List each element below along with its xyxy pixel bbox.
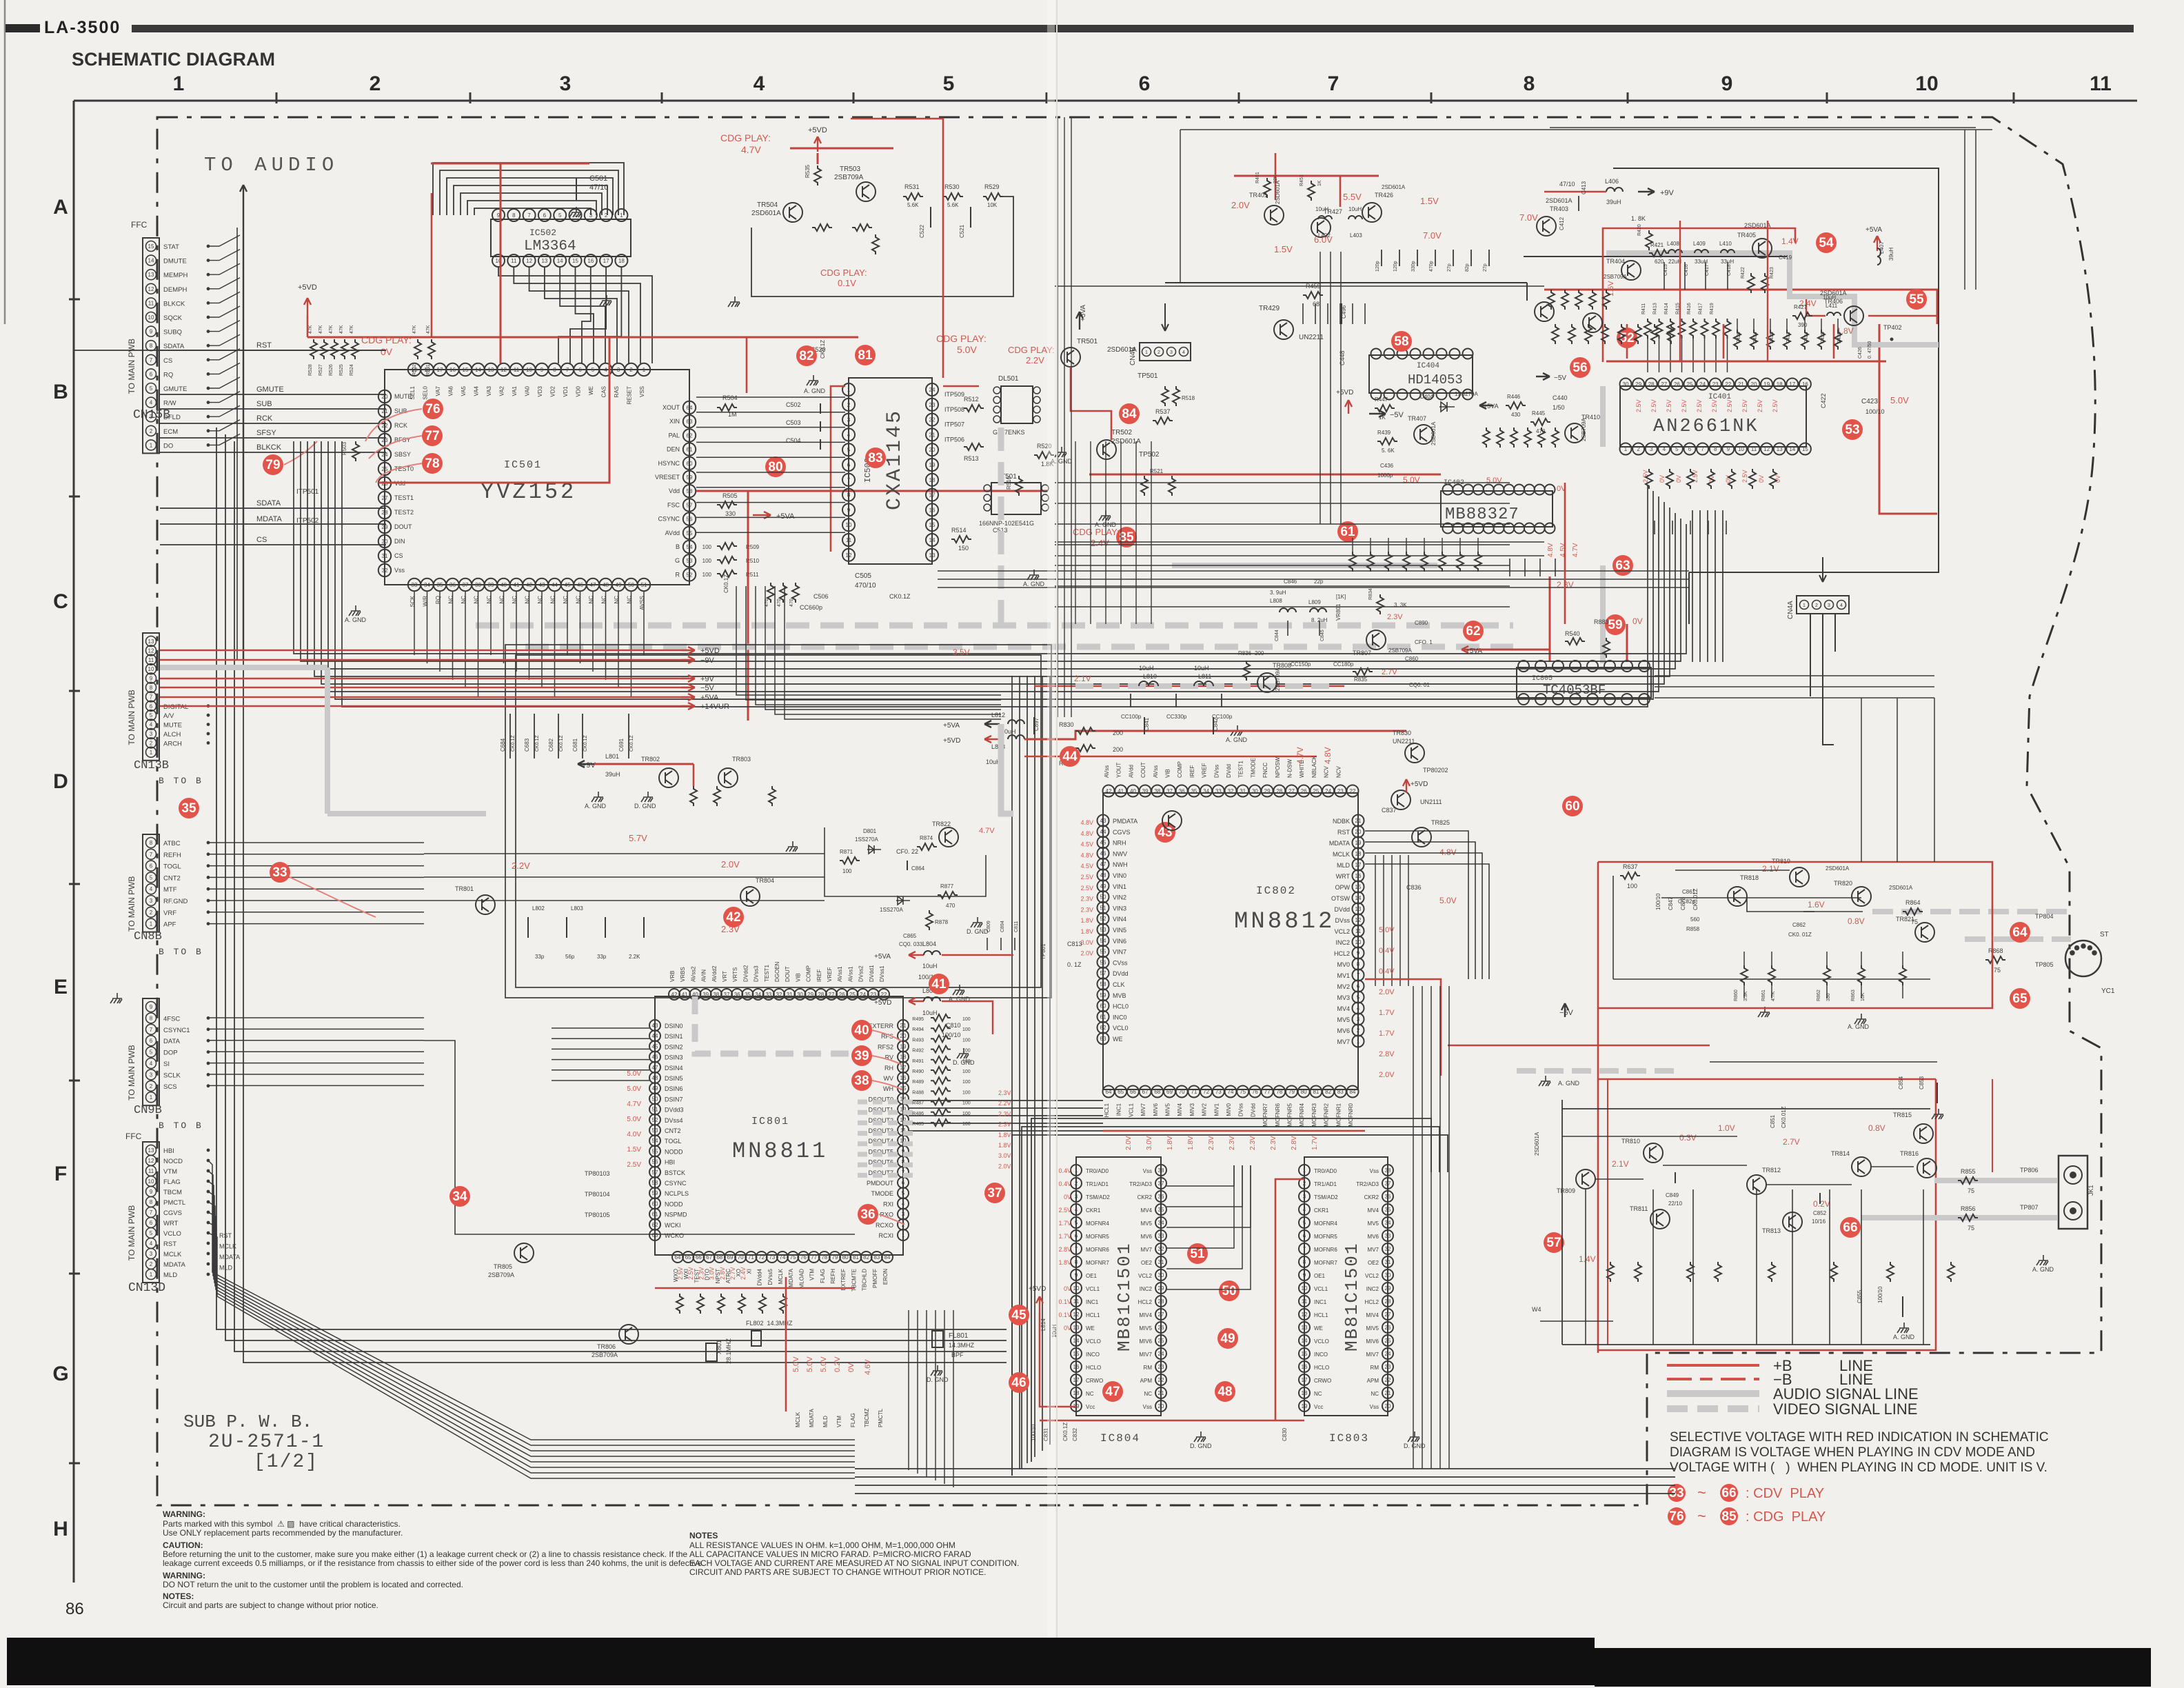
- svg-text:CFO. 1: CFO. 1: [1415, 639, 1433, 645]
- second -5V arrow: [1536, 373, 1550, 380]
- svg-text:WE: WE: [1086, 1325, 1095, 1332]
- svg-text:18: 18: [900, 1054, 907, 1061]
- svg-text:6: 6: [1303, 1233, 1306, 1239]
- svg-text:R529: R529: [984, 183, 1000, 190]
- svg-text:19: 19: [900, 1043, 907, 1049]
- callout 35: [179, 798, 199, 818]
- svg-text:HCL2: HCL2: [1138, 1299, 1153, 1305]
- svg-text:61: 61: [687, 447, 693, 453]
- svg-text:DSIN5: DSIN5: [665, 1075, 683, 1082]
- svg-text:65: 65: [1118, 1089, 1124, 1095]
- transistor Q-TR805 2SB709A: [514, 1243, 534, 1263]
- svg-text:3: 3: [1357, 1016, 1360, 1023]
- svg-text:76: 76: [1669, 1509, 1684, 1524]
- svg-text:TR2/AD3: TR2/AD3: [1356, 1181, 1379, 1187]
- svg-text:0V: 0V: [847, 1363, 856, 1372]
- svg-text:32: 32: [1228, 788, 1234, 794]
- svg-text:MOFNR6: MOFNR6: [1314, 1247, 1337, 1253]
- callout 49: [1217, 1328, 1238, 1349]
- svg-text:B: B: [676, 543, 680, 550]
- svg-text:C502: C502: [786, 401, 801, 408]
- svg-text:+5VD: +5VD: [1336, 389, 1353, 396]
- amp area supply rail top: [1562, 1108, 1930, 1109]
- svg-text:+14VUR: +14VUR: [700, 703, 729, 711]
- transistor Q-TR429 UN2211: [1274, 320, 1293, 339]
- svg-text:15: 15: [148, 243, 154, 250]
- wire box around central region outer: [505, 645, 1051, 998]
- svg-text:1.8V: 1.8V: [1058, 1259, 1071, 1266]
- +5VD arrow left of IC804: [1036, 1296, 1043, 1313]
- filter FL801 14.3MHZ BPF: [932, 1331, 943, 1347]
- svg-text:DVdd: DVdd: [1113, 970, 1129, 977]
- svg-text:3.5V: 3.5V: [953, 647, 970, 657]
- svg-text:58: 58: [687, 488, 693, 494]
- svg-text:330p: 330p: [1411, 261, 1416, 272]
- svg-text:R428: R428: [1837, 332, 1842, 343]
- transistor Q-TR804: [740, 887, 760, 906]
- svg-text:DVdd4: DVdd4: [757, 1268, 763, 1285]
- svg-text:10uH: 10uH: [1194, 665, 1209, 672]
- svg-text:A: A: [53, 196, 68, 219]
- svg-text:2SB709A: 2SB709A: [1581, 418, 1587, 441]
- svg-text:5.5V: 5.5V: [1343, 192, 1362, 202]
- caps C809 C894 C811 row: [987, 938, 988, 950]
- svg-text:29: 29: [382, 524, 388, 530]
- callout 43: [1155, 822, 1175, 843]
- svg-text:30: 30: [1623, 381, 1629, 388]
- svg-text:10: 10: [148, 666, 154, 672]
- svg-text:Circuit and parts are subject: Circuit and parts are subject to change …: [163, 1600, 378, 1610]
- callout 54: [1816, 232, 1837, 253]
- svg-text:CK0.1Z: CK0.1Z: [535, 735, 540, 752]
- svg-text:7: 7: [1303, 1246, 1306, 1252]
- svg-text:62: 62: [1466, 624, 1480, 639]
- svg-text:CDG PLAY:: CDG PLAY:: [820, 268, 867, 278]
- callout 51: [1187, 1243, 1208, 1264]
- svg-text:8: 8: [1303, 1259, 1306, 1265]
- xout oscillator parts R504: [717, 404, 737, 411]
- svg-text:CDG PLAY:: CDG PLAY:: [361, 334, 412, 345]
- svg-text:81: 81: [858, 348, 873, 363]
- svg-text:C418: C418: [1727, 264, 1732, 276]
- svg-text:R495: R495: [912, 1017, 924, 1022]
- svg-text:DVss3: DVss3: [754, 965, 760, 982]
- transistor Q-TR810 2SB709A: [1644, 1143, 1663, 1163]
- svg-text:37: 37: [1166, 788, 1173, 794]
- svg-text:32: 32: [1158, 1246, 1164, 1252]
- svg-text:R526: R526: [329, 364, 334, 376]
- svg-text:C425: C425: [1821, 332, 1826, 343]
- svg-text:+9V: +9V: [582, 761, 596, 770]
- svg-text:24: 24: [929, 387, 936, 393]
- svg-text:37: 37: [987, 1186, 1002, 1200]
- wire RST run: [74, 350, 386, 351]
- callout 61: [1337, 521, 1358, 542]
- svg-text:2.0V: 2.0V: [1379, 1071, 1395, 1079]
- svg-text:40: 40: [1130, 788, 1136, 794]
- svg-text:Vss: Vss: [394, 567, 405, 574]
- svg-text:79: 79: [832, 1254, 838, 1260]
- svg-text:R413: R413: [1653, 303, 1658, 314]
- svg-text:6: 6: [543, 212, 547, 219]
- svg-text:27: 27: [382, 495, 388, 501]
- svg-text:HCLO: HCLO: [1314, 1365, 1329, 1371]
- svg-text:6: 6: [578, 367, 582, 373]
- svg-text:13: 13: [148, 639, 154, 645]
- svg-text:14: 14: [1355, 895, 1362, 901]
- svg-text:TR811: TR811: [1630, 1205, 1648, 1212]
- svg-text:RESET: RESET: [627, 386, 633, 405]
- svg-text:RH: RH: [884, 1065, 893, 1072]
- grey audio path through filter: [1606, 253, 1939, 345]
- svg-text:68: 68: [1154, 1089, 1160, 1095]
- callout 45: [1009, 1305, 1029, 1325]
- svg-text:1K: 1K: [1379, 414, 1386, 421]
- svg-text:14: 14: [929, 537, 936, 543]
- IC U-IC801 MN8811: [655, 996, 903, 1255]
- svg-text:INC2: INC2: [1140, 1286, 1153, 1292]
- svg-text:AVdd: AVdd: [1128, 765, 1134, 778]
- callout 47: [1102, 1381, 1123, 1402]
- IC U-IC502 LM3364: [491, 219, 631, 257]
- svg-text:R863: R863: [1851, 989, 1856, 1001]
- svg-text:22: 22: [1725, 381, 1731, 388]
- svg-text:NOTES: NOTES: [689, 1531, 718, 1540]
- callout 41: [929, 974, 949, 994]
- svg-text:NOTES:: NOTES:: [163, 1591, 194, 1601]
- svg-text:TR825: TR825: [1431, 819, 1450, 826]
- svg-text:INC1: INC1: [1086, 1299, 1099, 1305]
- svg-text:1.7V: 1.7V: [1379, 1029, 1395, 1038]
- svg-text:63: 63: [652, 1232, 658, 1238]
- svg-text:C837: C837: [1382, 807, 1397, 814]
- svg-text:330: 330: [1826, 993, 1831, 1001]
- svg-text:SEL0: SEL0: [423, 385, 429, 399]
- svg-text:HCL0: HCL0: [1113, 1003, 1129, 1010]
- svg-text:4.8V: 4.8V: [1323, 747, 1333, 764]
- svg-text:71: 71: [1191, 1089, 1197, 1095]
- callout 77: [422, 425, 443, 446]
- svg-text:DVss: DVss: [1238, 1103, 1244, 1116]
- svg-text:MN8811: MN8811: [732, 1138, 828, 1164]
- callout 33: [270, 862, 290, 883]
- callout 42: [723, 907, 744, 927]
- long verticals through middle: [1057, 117, 1058, 717]
- svg-text:WE: WE: [1314, 1325, 1323, 1332]
- svg-text:2SD601A: 2SD601A: [1546, 197, 1573, 204]
- svg-text:2.5V: 2.5V: [1711, 399, 1718, 412]
- +9V arrow left net: [578, 761, 594, 767]
- svg-text:5.0V: 5.0V: [1379, 926, 1395, 934]
- svg-text:100/10: 100/10: [1655, 893, 1661, 910]
- svg-text:CIRCUIT AND PARTS ARE SUBJECT: CIRCUIT AND PARTS ARE SUBJECT TO CHANGE …: [689, 1567, 987, 1577]
- svg-text:N-DSW: N-DSW: [1287, 758, 1293, 778]
- svg-text:INC1: INC1: [1116, 1103, 1122, 1116]
- IC U-IC804 MB81C1501: [1076, 1157, 1161, 1416]
- red wire +9V rail into TR802: [594, 763, 694, 765]
- svg-text:VCL1: VCL1: [1086, 1286, 1100, 1292]
- svg-text:0.1V: 0.1V: [838, 278, 856, 288]
- svg-text:44: 44: [652, 1033, 658, 1039]
- svg-text:38: 38: [1158, 1167, 1164, 1174]
- svg-text:40: 40: [501, 582, 507, 588]
- svg-text:VIN4: VIN4: [1113, 916, 1126, 923]
- svg-text:ITP507: ITP507: [944, 421, 964, 428]
- svg-text:VRF: VRF: [163, 910, 176, 917]
- block DL501: [1001, 386, 1033, 423]
- svg-text:22: 22: [1350, 788, 1356, 794]
- svg-text:L814: L814: [1040, 1318, 1046, 1331]
- svg-text:TBCMZ: TBCMZ: [864, 1408, 870, 1427]
- svg-text:C897: C897: [1033, 717, 1040, 731]
- svg-text:54: 54: [1100, 938, 1106, 944]
- svg-text:VCL0: VCL0: [1113, 1025, 1129, 1032]
- svg-text:24: 24: [1385, 1351, 1391, 1357]
- svg-text:4.8V: 4.8V: [1080, 819, 1093, 826]
- svg-text:ECM: ECM: [163, 428, 178, 436]
- svg-text:38: 38: [475, 582, 481, 588]
- svg-text:TP804: TP804: [2035, 913, 2054, 920]
- svg-text:TR812: TR812: [1762, 1167, 1781, 1174]
- svg-text:64: 64: [1106, 1089, 1112, 1095]
- svg-text:86: 86: [65, 1600, 84, 1618]
- connector CN15B: [143, 238, 159, 453]
- svg-text:41: 41: [682, 992, 688, 998]
- svg-text:2.3V: 2.3V: [1080, 896, 1093, 903]
- svg-text:MV7: MV7: [1141, 1247, 1153, 1253]
- red bus above AN2661NK pins: [1606, 361, 1886, 363]
- svg-text:VIN6: VIN6: [1113, 938, 1126, 945]
- svg-text:XI: XI: [746, 1269, 752, 1274]
- svg-text:47: 47: [1105, 1385, 1120, 1399]
- svg-text:HCL2: HCL2: [1334, 950, 1350, 957]
- svg-text:3: 3: [150, 1251, 153, 1257]
- svg-text:9: 9: [1357, 950, 1360, 956]
- svg-text:5: 5: [1303, 1220, 1306, 1226]
- callout 38: [851, 1070, 872, 1091]
- CN9B stub wires: [208, 1017, 424, 1018]
- svg-text:R513: R513: [964, 455, 979, 462]
- wire loop nest around IC804/IC803: [1012, 1135, 1448, 1476]
- svg-text:2.5V: 2.5V: [1635, 399, 1642, 412]
- svg-text:1.8V: 1.8V: [998, 1142, 1011, 1149]
- svg-text:SQCK: SQCK: [163, 314, 183, 322]
- resistor R835 3.3K: [1353, 668, 1373, 675]
- svg-text:TR404: TR404: [1606, 258, 1625, 265]
- svg-text:MLD: MLD: [1337, 862, 1351, 869]
- svg-text:DIAGRAM IS VOLTAGE WHEN PLAYIN: DIAGRAM IS VOLTAGE WHEN PLAYING IN CDV M…: [1670, 1445, 2035, 1460]
- svg-text:10: 10: [1073, 1285, 1080, 1292]
- svg-text:OTSW: OTSW: [1331, 895, 1351, 902]
- filter caps C415-C418: [1664, 262, 1665, 290]
- svg-text:20: 20: [929, 447, 936, 453]
- transistor Q-TR830 UN2211: [1405, 743, 1424, 763]
- wire bundle right of IC802 to IC803: [1413, 986, 1414, 1469]
- ground A.GND below JK1: [2036, 1255, 2048, 1265]
- svg-text:50: 50: [652, 1096, 658, 1102]
- svg-text:CKR1: CKR1: [1086, 1207, 1101, 1214]
- svg-text:39: 39: [1142, 788, 1149, 794]
- svg-text:1.8V: 1.8V: [1187, 1136, 1195, 1150]
- svg-text:2.5V: 2.5V: [677, 1267, 684, 1280]
- grey bus from CN13B: [160, 665, 327, 670]
- svg-text:CK0.1Z: CK0.1Z: [820, 340, 826, 359]
- svg-text:R421: R421: [1650, 242, 1664, 248]
- svg-text:GMUTE: GMUTE: [256, 385, 284, 394]
- svg-text:2.2V: 2.2V: [998, 1100, 1011, 1107]
- +5VD arrow right of IC802: [1403, 779, 1410, 793]
- svg-text:R427: R427: [1794, 304, 1808, 310]
- svg-text:2.2V: 2.2V: [512, 861, 530, 871]
- svg-text:MV0: MV0: [1337, 961, 1350, 968]
- svg-text:R537: R537: [1155, 408, 1171, 415]
- svg-text:−5V: −5V: [1554, 374, 1566, 382]
- svg-text:TR502: TR502: [1111, 429, 1132, 436]
- horizontal bundle IC801-right to IC802-bottom: [909, 1100, 1103, 1101]
- svg-text:MOFNR1: MOFNR1: [1335, 1103, 1342, 1126]
- svg-text:54: 54: [1819, 236, 1834, 250]
- svg-text:ERON: ERON: [882, 1269, 889, 1285]
- svg-text:2.5V: 2.5V: [1772, 399, 1779, 412]
- svg-text:MVB: MVB: [1113, 992, 1126, 999]
- svg-text:C842: C842: [1213, 717, 1219, 731]
- red wire vertical into pin2 of IC501: [500, 163, 502, 363]
- svg-text:MV7: MV7: [1368, 1247, 1379, 1253]
- svg-text:36: 36: [860, 1207, 875, 1222]
- svg-text:0V: 0V: [381, 346, 393, 357]
- svg-text:R401: R401: [1255, 172, 1260, 183]
- svg-text:+5VA: +5VA: [1484, 403, 1499, 410]
- svg-text:AVss: AVss: [1104, 765, 1110, 778]
- svg-text:100: 100: [962, 1101, 971, 1106]
- svg-text:R531: R531: [904, 183, 920, 190]
- svg-text:2.5V: 2.5V: [1666, 399, 1672, 412]
- svg-text:VIN7: VIN7: [1113, 949, 1126, 956]
- R516 resistor: [1015, 476, 1022, 496]
- svg-text:TP80202: TP80202: [1423, 767, 1448, 774]
- svg-text:5.0V: 5.0V: [1890, 395, 1909, 405]
- svg-text:53: 53: [1100, 927, 1106, 933]
- svg-text:36: 36: [449, 582, 456, 588]
- svg-text:38: 38: [854, 1074, 869, 1088]
- svg-text:A. GND: A. GND: [345, 616, 367, 623]
- svg-text:1.8V: 1.8V: [1080, 928, 1093, 935]
- svg-text:VA4: VA4: [474, 385, 480, 396]
- svg-text:20: 20: [900, 1033, 907, 1039]
- svg-text:0. 47/50: 0. 47/50: [1868, 341, 1872, 359]
- svg-text:0.2V: 0.2V: [1813, 1199, 1830, 1209]
- resistor R871: [840, 857, 860, 864]
- svg-text:42: 42: [726, 910, 740, 925]
- resistor R834 3.3K: [1377, 594, 1384, 614]
- svg-text:4.5V: 4.5V: [1080, 863, 1093, 870]
- svg-text:31: 31: [1158, 1259, 1164, 1265]
- transistor Q-TR405 2SD601A: [1752, 239, 1772, 258]
- svg-text:CS: CS: [163, 357, 172, 365]
- svg-text:48: 48: [603, 582, 609, 588]
- callout 40: [851, 1020, 872, 1041]
- svg-text:28: 28: [1276, 788, 1282, 794]
- svg-text:33p: 33p: [535, 954, 545, 960]
- svg-text:TP801: TP801: [1040, 943, 1046, 960]
- svg-text:2SD601A: 2SD601A: [1744, 222, 1771, 229]
- svg-text:69: 69: [1166, 1089, 1173, 1095]
- svg-text:39: 39: [854, 1049, 869, 1063]
- svg-text:4.8V: 4.8V: [1439, 847, 1457, 857]
- svg-text:10: 10: [148, 1178, 154, 1185]
- svg-text:TR405: TR405: [1737, 232, 1756, 239]
- svg-text:1.8V: 1.8V: [1166, 1136, 1174, 1150]
- svg-text:TR403: TR403: [1550, 205, 1568, 212]
- svg-text:ITP506: ITP506: [944, 436, 964, 443]
- svg-text:TMODE: TMODE: [871, 1190, 894, 1197]
- svg-text:10/16: 10/16: [1812, 1218, 1826, 1225]
- svg-text:1: 1: [150, 750, 153, 756]
- svg-text:MLD: MLD: [163, 1272, 177, 1279]
- caps CC100p CC330p CC100p: [1130, 694, 1131, 707]
- svg-text:4: 4: [1182, 350, 1185, 355]
- svg-text:4: 4: [150, 1240, 153, 1247]
- svg-text:DO NOT return the unit to the: DO NOT return the unit to the customer u…: [163, 1580, 463, 1589]
- svg-text:6: 6: [1139, 72, 1151, 95]
- svg-text:R518: R518: [1182, 395, 1195, 401]
- svg-text:INC0: INC0: [1113, 1014, 1127, 1021]
- svg-text:C503: C503: [786, 419, 801, 426]
- wire verticals upper right to AN area: [1964, 130, 1965, 290]
- svg-text:R417: R417: [1699, 303, 1703, 314]
- decoupling caps row below CN13B rails: [509, 714, 511, 758]
- svg-text:OE2: OE2: [1141, 1260, 1153, 1266]
- svg-text:1.5V: 1.5V: [1274, 244, 1293, 254]
- svg-text:3: 3: [150, 1072, 153, 1078]
- svg-text:5: 5: [150, 712, 153, 719]
- svg-text:R540: R540: [1565, 630, 1580, 637]
- svg-text:VIN3: VIN3: [1113, 905, 1126, 912]
- caps cluster R424-R426 C420 C421 C424 C425: [1737, 319, 1738, 330]
- callout 62: [1463, 621, 1484, 641]
- svg-text:10uH: 10uH: [1139, 665, 1154, 672]
- svg-text:PAL: PAL: [669, 432, 680, 439]
- sub-board dash-dot outline: [157, 117, 2101, 1505]
- svg-text:5.0V: 5.0V: [957, 344, 977, 355]
- svg-text:MIV4: MIV4: [1177, 1103, 1183, 1116]
- svg-text:TP805: TP805: [2035, 961, 2054, 968]
- resistor R505: [717, 501, 737, 508]
- svg-text:75: 75: [790, 1254, 796, 1260]
- svg-text:NCV: NCV: [1335, 765, 1342, 778]
- svg-text:−5V: −5V: [700, 684, 715, 692]
- svg-text:64: 64: [2012, 925, 2028, 940]
- svg-text:21: 21: [900, 1023, 907, 1029]
- DIN connector YC1: [2065, 941, 2101, 976]
- svg-text:4.7V: 4.7V: [1295, 747, 1305, 764]
- red wire TR501-TR502: [1071, 367, 1111, 440]
- grid column tick marks: [276, 92, 278, 103]
- block T501 delay line: [991, 483, 1041, 514]
- svg-text:0. 1Z: 0. 1Z: [1067, 961, 1082, 968]
- svg-text:25: 25: [382, 466, 388, 472]
- svg-text:33: 33: [272, 865, 287, 880]
- svg-text:0.8V: 0.8V: [1848, 916, 1865, 926]
- +5VD arrow and inductor L805: [909, 998, 924, 1005]
- cap C862 CK0.01Z: [1803, 911, 1814, 912]
- svg-text:DVss4: DVss4: [665, 1117, 683, 1124]
- svg-text:RF.GND: RF.GND: [163, 898, 188, 905]
- svg-text:SDATA: SDATA: [256, 499, 281, 508]
- +5VD arrow top: [814, 137, 821, 152]
- svg-text:: CDV PLAY: : CDV PLAY: [1746, 1486, 1824, 1501]
- svg-text:6: 6: [902, 1180, 905, 1186]
